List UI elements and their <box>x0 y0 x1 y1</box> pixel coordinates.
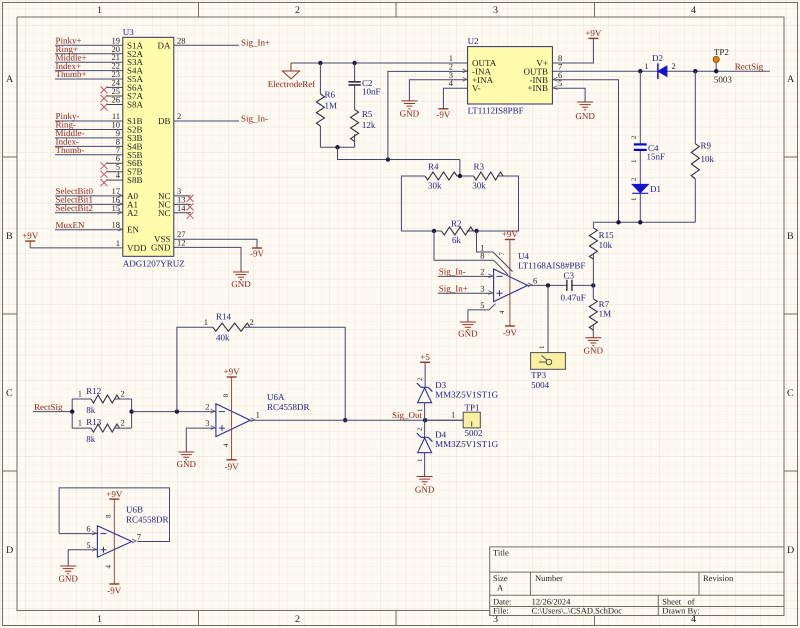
svg-text:1: 1 <box>97 5 102 16</box>
svg-text:1: 1 <box>78 418 82 428</box>
svg-text:2: 2 <box>672 61 676 71</box>
svg-text:Title: Title <box>493 548 509 558</box>
svg-text:3: 3 <box>493 5 498 16</box>
svg-text:-9V: -9V <box>250 249 264 259</box>
wire R14 branch vertical <box>177 327 213 411</box>
svg-text:ADG1207YRUZ: ADG1207YRUZ <box>123 259 185 269</box>
junction at R6 top <box>318 61 322 65</box>
U3 pin S8A (26) stub <box>106 95 144 110</box>
svg-text:-9V: -9V <box>503 328 517 338</box>
svg-text:GND: GND <box>458 329 478 339</box>
svg-text:Sig_In-: Sig_In- <box>241 113 268 123</box>
op-amp U6A RC4558DR triangle <box>205 392 309 437</box>
svg-text:C: C <box>787 388 794 399</box>
ground symbol for U6A pin 3 <box>177 452 197 469</box>
svg-text:28: 28 <box>177 35 186 45</box>
svg-text:30k: 30k <box>472 181 486 191</box>
IC U3 ADG1207YRUZ body <box>123 27 185 269</box>
svg-text:12k: 12k <box>362 120 376 130</box>
svg-text:GND: GND <box>575 111 595 121</box>
U2 pin 5 +INB wire to GND <box>527 78 585 102</box>
U3 pin EN (18) with wire <box>55 220 139 235</box>
pin input arrows U3 <box>118 193 122 231</box>
wire R14 to output loop <box>244 327 345 420</box>
svg-text:+9V: +9V <box>502 229 519 239</box>
svg-text:VDD: VDD <box>127 243 147 253</box>
resistor R14 40k <box>204 311 254 342</box>
test point TP3 5004 <box>531 353 566 390</box>
wire R6/R5 bottoms <box>320 146 354 148</box>
svg-text:S8B: S8B <box>127 175 143 185</box>
svg-text:B: B <box>787 231 794 242</box>
diode D1 (pointing down) <box>630 177 661 222</box>
svg-text:2: 2 <box>630 135 638 139</box>
U3 pin DB (2) with wire <box>158 111 239 126</box>
wire R2 right to U4 pin 1 <box>477 231 513 272</box>
diode D2 (pointing left) <box>644 53 675 79</box>
resistor R15 10k (vertical) <box>589 222 614 285</box>
ground symbol below D4 <box>415 477 435 495</box>
junction D2 anode <box>638 69 642 73</box>
svg-text:10k: 10k <box>701 154 715 164</box>
svg-text:R15: R15 <box>599 230 615 240</box>
wire U2 pin 7 OUTB to RectSig <box>552 70 770 72</box>
U2 pin 1 OUTA <box>449 53 497 68</box>
junction above R9 <box>693 69 697 73</box>
power port -9V for U2 pin 4 <box>436 109 450 120</box>
svg-text:15nF: 15nF <box>647 152 666 162</box>
svg-text:1: 1 <box>630 159 638 163</box>
svg-text:Size: Size <box>493 573 508 583</box>
svg-text:30k: 30k <box>428 181 442 191</box>
svg-text:U3: U3 <box>123 27 134 37</box>
power port +9V for U3 VDD <box>22 231 39 248</box>
U6B pin 5 wire to GND <box>68 540 97 566</box>
no-ERC cross pin 25 <box>101 95 108 102</box>
U3 pin DA (28) with wire <box>158 35 240 50</box>
svg-text:ElectrodeRef: ElectrodeRef <box>268 79 315 89</box>
svg-text:10k: 10k <box>599 240 613 250</box>
U3 pin S1B (11) with wire <box>55 111 143 126</box>
svg-text:8k: 8k <box>86 434 96 444</box>
junction left bracket <box>70 409 74 413</box>
junction R2 right <box>474 229 478 233</box>
svg-text:+INB: +INB <box>527 83 548 93</box>
junction C3/R15/R7 <box>591 283 595 287</box>
svg-text:5002: 5002 <box>465 428 483 438</box>
svg-text:12: 12 <box>177 237 186 247</box>
svg-text:V-: V- <box>472 83 481 93</box>
U3 pin NC (14) stub <box>158 203 191 218</box>
svg-text:Revision: Revision <box>703 573 734 583</box>
svg-text:40k: 40k <box>216 333 230 343</box>
no-ERC cross pin 3 <box>187 195 194 202</box>
pin arrows U6A <box>211 409 255 430</box>
svg-text:SelectBit2: SelectBit2 <box>56 203 94 213</box>
svg-text:R5: R5 <box>362 109 373 119</box>
svg-text:R3: R3 <box>474 162 485 172</box>
U3 pin S7A (25) stub <box>106 86 144 101</box>
U3 pin VSS (27) wire to -9V <box>154 229 257 248</box>
net label RectSig (bottom left) <box>33 402 72 412</box>
U2 pin 6 -INB <box>530 70 563 85</box>
svg-text:1: 1 <box>204 317 208 327</box>
resistor R4 30k <box>425 162 457 191</box>
U3 pin A0 (17) with wire <box>55 186 138 201</box>
svg-text:U6A: U6A <box>267 392 285 402</box>
IC U2 LT1112IS8PBF body <box>468 36 553 115</box>
U3 pin S7B (5) stub <box>106 162 143 177</box>
test point TP2 (orange) <box>713 47 732 84</box>
wire U2 pin 6 to bottom rail <box>552 80 618 223</box>
U3 pin S8B (4) stub <box>106 170 143 185</box>
U3 pin S5A (23) with wire <box>55 69 144 84</box>
svg-text:RC4558DR: RC4558DR <box>267 402 310 412</box>
wire R2 left to U4 pin 8 <box>434 231 508 275</box>
resistor R3 30k <box>472 162 503 191</box>
svg-text:2: 2 <box>416 427 424 431</box>
svg-text:1: 1 <box>116 238 120 248</box>
wire R12/R13 left bracket <box>72 399 91 428</box>
pin arrows U4 <box>488 274 532 295</box>
resistor R13 8k <box>78 417 132 444</box>
U3 pin S3B (9) with wire <box>55 128 143 143</box>
svg-text:File:: File: <box>493 606 509 616</box>
svg-text:A2: A2 <box>127 208 138 218</box>
svg-text:R14: R14 <box>216 311 232 321</box>
ground symbol for U2 pin 5 <box>575 102 595 121</box>
svg-text:1: 1 <box>78 389 82 399</box>
no-ERC cross pin 5 <box>101 171 108 178</box>
svg-text:1M: 1M <box>599 309 612 319</box>
U2 pin 3 +INA wire to GND <box>409 70 493 101</box>
svg-text:1M: 1M <box>325 101 338 111</box>
svg-text:7: 7 <box>137 531 141 541</box>
svg-text:-9V: -9V <box>107 586 121 596</box>
resistor R9 10k (vertical) <box>691 71 714 222</box>
ground symbol for U6B pin 5 <box>58 566 78 584</box>
junction bottom rail / U2 pin6 branch <box>616 220 620 224</box>
svg-text:2: 2 <box>480 267 484 277</box>
svg-text:GND: GND <box>177 459 197 469</box>
wire R12/R13 right bracket <box>131 399 133 428</box>
net label Sig_In- (U4 pin 2) <box>438 267 494 277</box>
U3 pin S1A (19) with wire <box>55 35 144 50</box>
no-ERC cross pin 13 <box>187 203 194 210</box>
junction right bracket <box>129 409 133 413</box>
svg-text:Thumb-: Thumb- <box>56 145 85 155</box>
U2 pin 7 OUTB <box>524 61 563 76</box>
title block <box>490 547 784 616</box>
svg-text:U2: U2 <box>468 36 479 46</box>
svg-text:Sig_In+: Sig_In+ <box>241 38 270 48</box>
svg-text:8: 8 <box>480 251 484 261</box>
svg-text:Sig_In-: Sig_In- <box>439 267 466 277</box>
U3 pin S6B (6) stub <box>106 153 143 168</box>
svg-text:GND: GND <box>415 485 435 495</box>
ground symbol for U3 pin 12 <box>231 272 251 289</box>
svg-text:2: 2 <box>121 418 125 428</box>
U3 pin S5B (7) with wire <box>55 145 143 160</box>
svg-text:RC4558DR: RC4558DR <box>126 514 169 524</box>
svg-text:MM3Z5V1ST1G: MM3Z5V1ST1G <box>435 389 499 399</box>
U2 pin 2 -INA <box>449 61 492 76</box>
junction at U2 pin2 branch <box>386 157 390 161</box>
svg-text:S8A: S8A <box>127 100 144 110</box>
svg-text:EN: EN <box>127 225 139 235</box>
junction at C2 top <box>352 61 356 65</box>
svg-text:+5: +5 <box>420 352 430 362</box>
svg-text:TP2: TP2 <box>714 47 729 57</box>
power rail +9V/-9V through U6B <box>105 489 123 596</box>
svg-text:DA: DA <box>158 40 171 50</box>
svg-text:26: 26 <box>112 95 121 105</box>
wire U2 pin2 vertical <box>388 71 468 159</box>
svg-text:R7: R7 <box>599 299 610 309</box>
test point TP1 5002 <box>463 402 482 438</box>
svg-text:6k: 6k <box>452 235 462 245</box>
svg-text:-9V: -9V <box>225 461 239 471</box>
svg-text:6: 6 <box>533 275 537 285</box>
power rail +9V/-9V through U4 <box>498 229 518 338</box>
svg-text:TP3: TP3 <box>531 370 547 380</box>
pin input arrows U2 <box>463 69 558 90</box>
svg-text:18: 18 <box>112 220 121 230</box>
junction below R6 <box>335 145 339 149</box>
svg-text:4: 4 <box>222 443 230 447</box>
svg-text:2: 2 <box>295 5 300 16</box>
junction Sig_Out node <box>423 418 427 422</box>
svg-text:LT1168AIS8#PBF: LT1168AIS8#PBF <box>518 261 585 271</box>
wire Sig_Out node to TP1 <box>425 410 463 421</box>
power port ElectrodeRef (triangle) <box>268 63 315 89</box>
junction bottom rail / D1 <box>638 220 642 224</box>
no-ERC cross pin 4 <box>101 179 108 186</box>
U2 pin 8 V+ wire to +9V <box>536 38 593 68</box>
svg-text:3: 3 <box>205 418 209 428</box>
wire +9V to VDD pin 1 <box>30 238 147 253</box>
wire ElectrodeRef net to U2 pin 1 <box>291 62 468 64</box>
no-ERC cross pin 26 <box>101 104 108 111</box>
svg-text:14: 14 <box>177 203 186 213</box>
power rail +9V/-9V through U6A <box>222 367 240 472</box>
svg-text:MuxEN: MuxEN <box>56 220 86 230</box>
svg-text:1: 1 <box>416 408 424 412</box>
U6A pin 3 wire to GND <box>186 428 216 452</box>
wire bracket to U6A pin 2 <box>132 411 216 413</box>
svg-text:4: 4 <box>105 565 113 569</box>
U4 pin 5 wire to GND <box>468 300 496 322</box>
svg-text:+9V: +9V <box>585 28 602 38</box>
svg-text:2: 2 <box>177 111 181 121</box>
svg-text:GND: GND <box>231 279 251 289</box>
svg-text:NC: NC <box>158 208 171 218</box>
feedback loop left wire <box>401 176 441 231</box>
svg-text:A: A <box>787 74 795 85</box>
svg-text:D: D <box>787 545 794 556</box>
junction R4/R3 midpoint <box>458 174 462 178</box>
svg-text:5003: 5003 <box>714 75 733 85</box>
svg-text:D: D <box>6 545 13 556</box>
svg-text:RectSig: RectSig <box>34 402 63 412</box>
U3 pin A1 (16) with wire <box>55 194 138 209</box>
net label Sig_In+ (U4 pin 3) <box>438 283 494 293</box>
svg-text:1: 1 <box>538 345 546 349</box>
svg-text:R13: R13 <box>86 417 102 427</box>
svg-text:2: 2 <box>205 402 209 412</box>
U3 pin A2 (15) with wire <box>55 203 138 218</box>
svg-text:1: 1 <box>630 197 638 201</box>
U3 pin S4B (8) with wire <box>55 136 143 151</box>
wire bottom rail <box>593 221 695 223</box>
svg-text:3: 3 <box>480 283 484 293</box>
svg-text:Sig_In+: Sig_In+ <box>439 283 468 293</box>
svg-text:7: 7 <box>498 252 506 256</box>
wire C4/D1 vertical branch <box>639 71 641 144</box>
U3 pin S6A (24) stub <box>106 77 144 92</box>
svg-text:+9V: +9V <box>106 489 123 499</box>
no-ERC cross pin 6 <box>101 162 108 169</box>
capacitor C2 10nF <box>348 63 380 109</box>
svg-text:D4: D4 <box>435 430 446 440</box>
svg-text:DB: DB <box>158 116 171 126</box>
U3 pin S4A (22) with wire <box>55 61 144 76</box>
svg-text:U4: U4 <box>518 251 529 261</box>
resistor R5 12k (vertical) <box>351 109 376 147</box>
U3 pin S2A (20) with wire <box>55 44 144 59</box>
capacitor C4 15nF <box>630 135 665 184</box>
svg-text:R12: R12 <box>86 386 101 396</box>
ground symbol for U2 pin 3 <box>400 101 420 119</box>
svg-text:D2: D2 <box>652 53 663 63</box>
power port +9V for U2 pin 8 <box>585 28 602 38</box>
svg-text:MM3Z5V1ST1G: MM3Z5V1ST1G <box>435 439 499 449</box>
svg-text:LT1112IS8PBF: LT1112IS8PBF <box>468 106 524 116</box>
zener diode D3 MM3Z5V1ST1G <box>416 377 499 420</box>
U6A output pin 1 wire (Sig_Out net) <box>250 410 463 421</box>
svg-text:1: 1 <box>256 410 260 420</box>
svg-text:6: 6 <box>86 524 90 534</box>
pin arrows U6B <box>92 531 136 551</box>
svg-text:R4: R4 <box>428 162 439 172</box>
U3 pin S3A (21) with wire <box>55 52 144 67</box>
svg-text:4: 4 <box>498 310 506 314</box>
svg-text:Number: Number <box>535 573 563 583</box>
svg-text:5: 5 <box>86 540 90 550</box>
svg-text:8k: 8k <box>86 405 96 415</box>
op-amp U6B RC4558DR triangle <box>97 505 168 558</box>
junction R2 left <box>432 229 436 233</box>
svg-text:0.47uF: 0.47uF <box>561 292 586 302</box>
svg-text:U6B: U6B <box>126 505 143 515</box>
svg-text:Thumb+: Thumb+ <box>56 69 87 79</box>
junction output loop corner <box>343 418 347 422</box>
svg-text:R9: R9 <box>701 141 712 151</box>
feedback loop right wire <box>467 176 519 231</box>
svg-text:10nF: 10nF <box>362 87 381 97</box>
U3 pin NC (3) stub <box>158 186 191 201</box>
zener diode D4 MM3Z5V1ST1G <box>416 420 499 476</box>
svg-text:5004: 5004 <box>531 380 550 390</box>
svg-text:TP1: TP1 <box>465 402 480 412</box>
svg-text:RectSig: RectSig <box>735 62 764 72</box>
wire TP3 drop <box>538 285 548 352</box>
svg-text:C: C <box>6 388 13 399</box>
ground symbol below R7 <box>584 338 604 356</box>
ground symbol for U4 pin 5 <box>458 322 478 339</box>
svg-text:+9V: +9V <box>22 231 39 241</box>
svg-text:GND: GND <box>400 109 420 119</box>
U3 pin GND (12) wire <box>151 237 241 272</box>
svg-text:2: 2 <box>250 317 254 327</box>
wire drop into R4/R3 node <box>459 160 461 177</box>
power port -9V for U3 VSS <box>250 248 264 259</box>
svg-text:B: B <box>6 231 13 242</box>
svg-text:Drawn By:: Drawn By: <box>662 606 700 616</box>
svg-text:-9V: -9V <box>436 110 450 120</box>
svg-text:4: 4 <box>691 5 696 16</box>
no-ERC cross pin 14 <box>187 212 194 219</box>
op-amp U4 LT1168AIS8#PBF triangle <box>494 251 586 302</box>
no-ERC cross pin 24 <box>101 86 108 93</box>
svg-text:5: 5 <box>480 300 484 310</box>
U4 output pin 6 wire <box>528 275 594 285</box>
resistor R6 1M (vertical) <box>316 63 337 147</box>
svg-text:A: A <box>497 583 504 593</box>
svg-text:8: 8 <box>105 514 113 518</box>
wire R4 to R3 <box>457 175 474 177</box>
wire U6B pin 6 <box>59 524 97 534</box>
junction R14 branch <box>175 409 179 413</box>
svg-text:15: 15 <box>112 203 121 213</box>
svg-text:1: 1 <box>416 458 424 462</box>
svg-text:R6: R6 <box>325 90 336 100</box>
power port +5 <box>420 352 430 388</box>
U2 pin 4 V- wire to -9V <box>443 78 480 109</box>
svg-text:D1: D1 <box>650 184 661 194</box>
svg-text:2: 2 <box>630 177 638 181</box>
wire drop to feedback row <box>338 147 460 159</box>
svg-text:+9V: +9V <box>224 367 241 377</box>
svg-text:2: 2 <box>295 614 300 625</box>
svg-text:R2: R2 <box>451 218 462 228</box>
svg-text:A: A <box>6 74 14 85</box>
svg-text:1: 1 <box>644 61 648 71</box>
capacitor C3 0.47uF <box>561 270 586 302</box>
svg-text:GND: GND <box>58 574 78 584</box>
resistor R7 1M (vertical) <box>589 285 611 337</box>
svg-text:GND: GND <box>584 346 604 356</box>
svg-text:8: 8 <box>222 393 230 397</box>
resistor R2 6k <box>442 218 474 245</box>
svg-text:2: 2 <box>121 389 125 399</box>
U3 pin NC (13) stub <box>158 194 191 209</box>
svg-text:1: 1 <box>451 410 455 420</box>
resistor R12 8k <box>78 386 132 415</box>
svg-text:GND: GND <box>151 242 171 252</box>
junction U4 output / TP3 <box>546 283 550 287</box>
U3 pin S2B (10) with wire <box>55 120 143 135</box>
svg-text:C3: C3 <box>564 270 575 280</box>
svg-text:1: 1 <box>97 614 102 625</box>
wire U6B feedback loop <box>59 488 169 542</box>
svg-text:2: 2 <box>416 377 424 381</box>
svg-text:C:\Users\..\CSAD.SchDoc: C:\Users\..\CSAD.SchDoc <box>532 606 623 616</box>
